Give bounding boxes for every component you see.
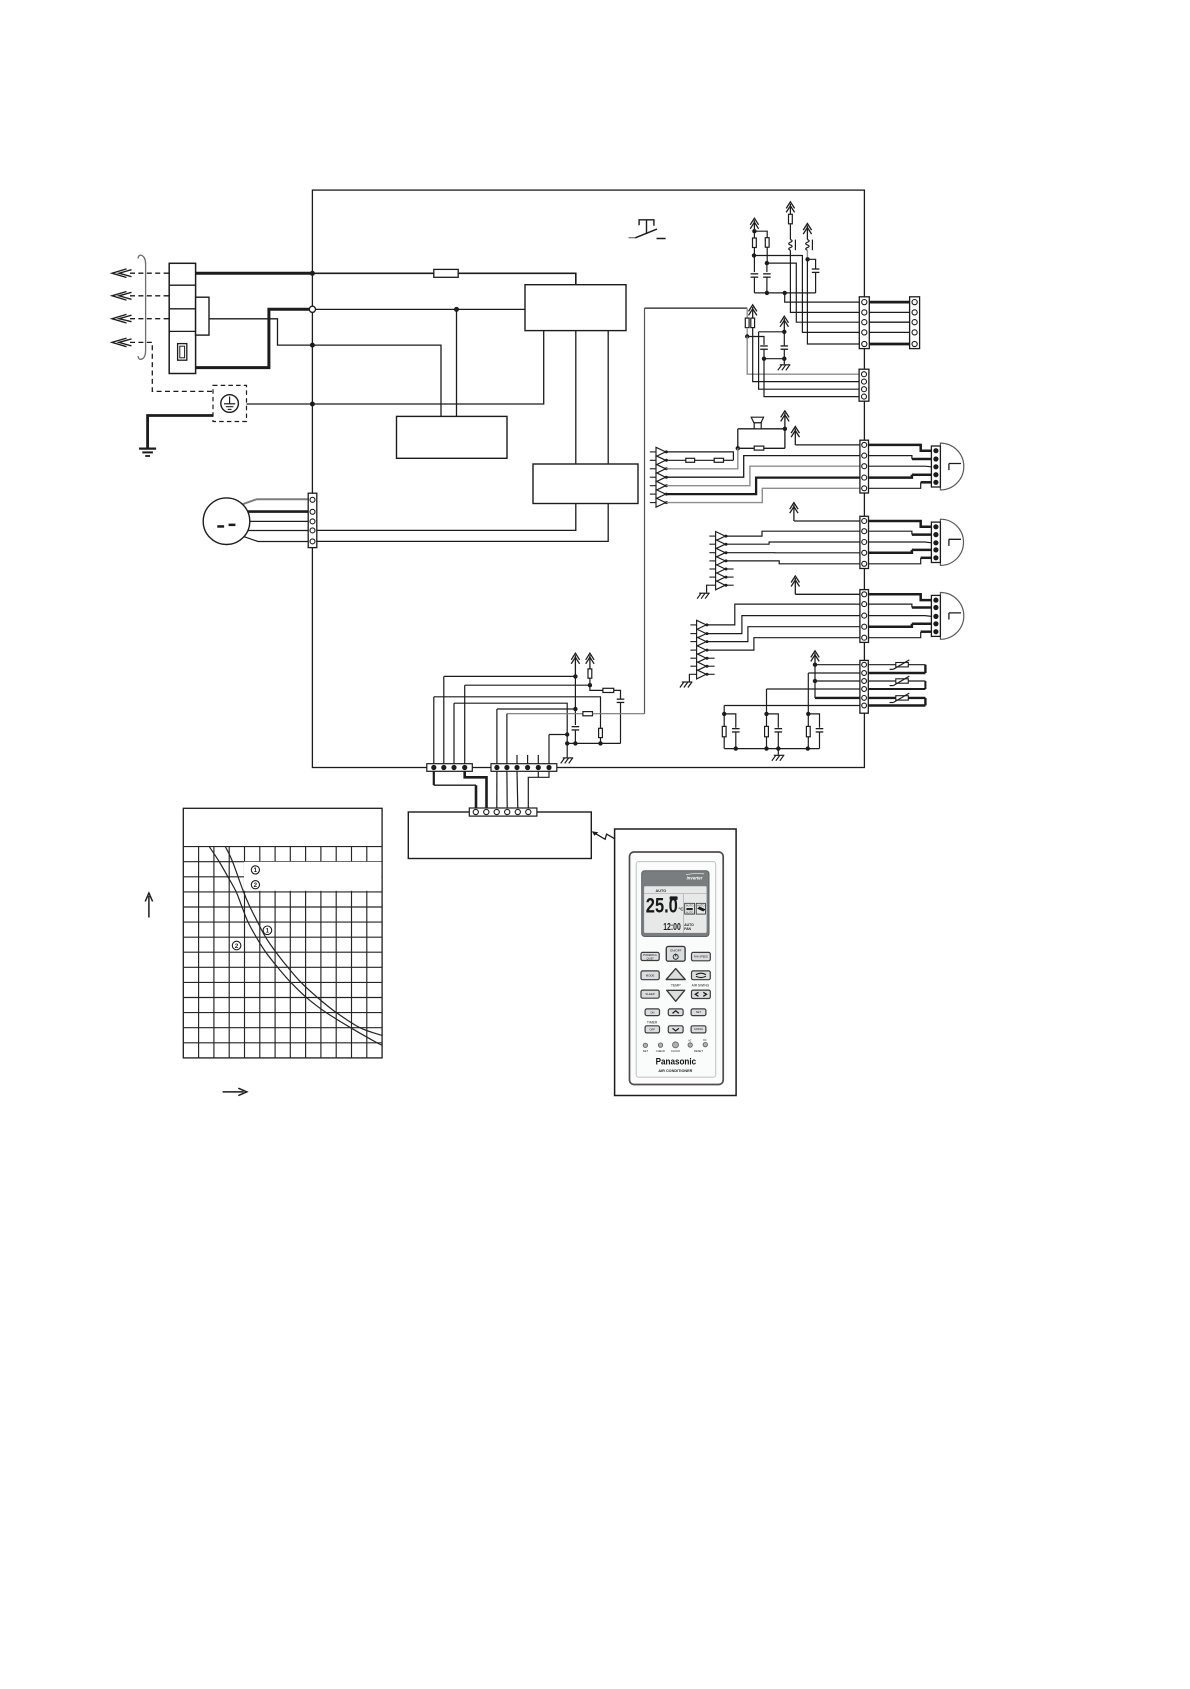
pin header array CN-M2-CN (7 zigzag pins): [709, 532, 727, 541]
wire A row3 to buzzer node: [666, 448, 737, 469]
wire motor lead 3: [250, 520, 308, 522]
stub strip2 pin3: [516, 755, 518, 764]
wire motor lead 4: [248, 530, 308, 532]
wire node to power block: [456, 309, 458, 416]
wire strip1 pin3 to ground line: [454, 703, 567, 734]
svg-text:MODE: MODE: [646, 973, 655, 977]
remote button FAN SPEED: [692, 952, 711, 960]
svg-text:SET: SET: [643, 1049, 649, 1053]
wire CN-M2 pin1 feed: [794, 520, 860, 522]
svg-text:2: 2: [254, 882, 258, 889]
remote button ON/OFF: [666, 946, 685, 961]
wire fuse F2 line (L to control box): [312, 272, 433, 274]
remote button TIMER OFF: [645, 1026, 659, 1033]
wire strip2 pin1 up: [497, 708, 576, 710]
wire CN-M2 w4 (thick): [869, 550, 912, 553]
power arrow P1: [750, 218, 758, 231]
thermistor TH2: [896, 679, 909, 683]
remote button AIR SWING auto: [692, 971, 711, 980]
graph x-axis arrow: [223, 1088, 247, 1095]
svg-text:inverter: inverter: [687, 875, 703, 880]
cable bundle brace: [138, 255, 145, 359]
wire CN-TH pin4 to RC2: [767, 688, 860, 690]
ground symbol cluster2: [783, 359, 785, 365]
node dot C4b: [762, 357, 766, 361]
remote control frame: [615, 829, 737, 1096]
wire supply to CN-TH pin3: [815, 680, 860, 682]
svg-text:12:00: 12:00: [663, 922, 681, 933]
node dot RC3 top: [806, 712, 810, 716]
wire CN-M3 w2: [869, 604, 912, 607]
wire from main line to cluster2: [645, 307, 748, 309]
wire to CN1 pin4: [754, 256, 859, 333]
wire CN-M2 spare stub: [726, 576, 734, 578]
node dot P5: [782, 330, 786, 334]
svg-text:OFF: OFF: [650, 1027, 656, 1031]
remote round button CLOCK: [673, 1042, 679, 1048]
node dot C21 mid: [573, 707, 577, 711]
wire CN-M2 spare stub: [726, 584, 734, 586]
wire R14 to C20: [614, 690, 621, 698]
wire F2 to control box top: [458, 273, 576, 284]
wire strip1 pin4 to R13: [465, 684, 590, 686]
svg-text:AIR CONDITIONER: AIR CONDITIONER: [658, 1069, 692, 1073]
remote button MODE: [641, 971, 659, 980]
ground symbol interface: [561, 758, 574, 764]
power arrow P7 (thermistor supply): [811, 651, 819, 665]
capacitor C10 (RC1): [724, 714, 736, 728]
remote LCD panel: [642, 871, 709, 937]
stub strip2 pin5: [537, 755, 539, 764]
wire CN-M3 w3: [869, 615, 932, 618]
relay block U3: [533, 464, 638, 504]
node dot gnd line a: [565, 732, 569, 736]
graph curve label 1: [263, 926, 272, 935]
capacitor C2: [766, 263, 768, 272]
resistor R16: [583, 712, 593, 716]
main PCB outline (indoor unit electronic controller): [312, 190, 864, 767]
ground symbol CN-M3: [680, 682, 693, 688]
wire CN-M3 w5: [869, 632, 921, 638]
dashed supply lead 2 with arrow: [130, 295, 169, 297]
power arrow CN-M3-P: [791, 576, 799, 594]
motor CN-M1 body: [940, 443, 963, 490]
pin header array CN-M3-CN (7 zigzag pins): [690, 620, 708, 629]
node dot R2b: [765, 261, 769, 265]
wire CN-M2 sensor row3: [726, 552, 860, 554]
wire CN-M3 spare stub: [707, 665, 715, 667]
wire CN-M3 w4 (thick): [869, 624, 912, 627]
node dot R1b: [752, 253, 756, 257]
wire CN1-CN2 pin2: [869, 311, 909, 313]
earth terminal E (protective earth circle): [213, 385, 247, 421]
wire C4b to C5b: [764, 358, 784, 360]
svg-text:SLEEP: SLEEP: [645, 992, 654, 996]
power arrow CN-M1-P: [791, 427, 799, 445]
dashed supply lead 1 with arrow: [130, 272, 169, 274]
svg-text:2: 2: [235, 943, 239, 950]
wire R1 bottom: [753, 248, 755, 256]
resistor R11 (RC2): [766, 714, 768, 727]
node junction dot L2: [310, 343, 315, 348]
ground symbol RC trio: [777, 749, 779, 755]
node dot R4b: [745, 334, 749, 338]
remote button SET: [691, 1009, 706, 1016]
wire CN-M3 sensor row1: [707, 604, 860, 625]
wire CN-M2 spare stub: [726, 568, 734, 570]
wire CN-TH pin2 to RC3: [808, 672, 860, 674]
motor M1 (fan motor): [203, 498, 250, 545]
wire R15 to rail: [600, 738, 602, 744]
wire L2 sense line: [209, 319, 312, 345]
node junction dot E: [310, 402, 315, 407]
capacitor C4: [760, 345, 768, 347]
power arrow P2 with resistor R3: [786, 202, 794, 215]
node dot T2: [813, 679, 817, 683]
node dot P8: [573, 674, 577, 678]
wire CN-TH pin6 to RC1: [724, 705, 860, 707]
wire strip1 pin2 to P8: [444, 675, 576, 677]
node junction dot L1: [310, 271, 315, 276]
svg-text:1: 1: [254, 867, 258, 874]
wire U3 to compressor connector pin4: [317, 504, 576, 531]
power arrow P5: [780, 316, 788, 332]
wire R4 node to cap C4: [747, 337, 764, 345]
graph legend mask: [244, 862, 381, 891]
power block U2: [397, 416, 508, 458]
remote control body: [630, 852, 724, 1085]
node dot rail b: [783, 291, 787, 295]
switch SW1 (auto off/on push switch): [629, 220, 666, 239]
graph curve label 2: [232, 941, 241, 950]
graph frame (performance chart): [183, 808, 382, 1058]
wire E node to control box: [312, 331, 543, 404]
wire supply to CN-TH pin5 (thick): [815, 697, 860, 699]
node open-circle junction N: [309, 306, 315, 312]
remote round button CHECK: [658, 1043, 662, 1047]
graph y-axis arrow: [145, 893, 152, 918]
node dot P1: [752, 229, 756, 233]
svg-text:FAN: FAN: [684, 927, 691, 931]
node dot buzzer left: [736, 446, 740, 450]
varistor Z2 (coil mark): [806, 240, 809, 251]
wire CN-M3 w1 (thick): [869, 594, 932, 600]
wire U1 to U3 line a: [575, 331, 577, 464]
node dot RC1 top: [722, 712, 726, 716]
svg-text:QUIET: QUIET: [646, 957, 654, 960]
wire supply vertical: [814, 665, 816, 698]
wire CN-M2 ground stub: [707, 585, 710, 593]
wire J2 pin2 down: [506, 771, 508, 808]
wire CN-M2 w1 (thick): [869, 521, 932, 527]
connector CN-M2 (5-pin): [860, 516, 869, 568]
resistor R13: [588, 669, 592, 678]
node dot rail left: [565, 741, 569, 745]
wire CN-M1 w4 (thick): [869, 475, 912, 478]
svg-text:AIR SWING: AIR SWING: [692, 984, 710, 988]
resistor R5: [751, 318, 755, 328]
power arrow P3: [803, 224, 811, 240]
wire CN-M3 sensor row3: [707, 627, 860, 642]
node dot T1: [813, 663, 817, 667]
wire A row1: [666, 452, 733, 460]
resistor R6 (buzzer): [754, 446, 764, 450]
wire J2 pins5-6 to display pin6: [528, 771, 549, 808]
remote button hour down: [668, 1026, 683, 1033]
wire interface rail: [567, 742, 620, 744]
connector CN-M1 (5-pin): [860, 440, 869, 493]
capacitor C1: [753, 256, 755, 273]
wire CN-M2 w5: [869, 558, 921, 564]
resistor R15: [599, 728, 603, 737]
wire bottom rail of filter: [754, 292, 815, 294]
dashed supply lead 3 with arrow: [130, 318, 169, 320]
remote LCD fan box 2: [696, 903, 705, 914]
thermistor TH3: [896, 696, 909, 700]
thermistor TH2 loop: [868, 680, 925, 682]
wire A row7 to CN-M1 pin5: [666, 488, 860, 502]
wire strip1 pin1 chain: [434, 697, 601, 729]
svg-text:AUTO: AUTO: [686, 910, 693, 914]
wire ground line down: [566, 735, 568, 758]
wire CN-M3 sensor row4: [707, 638, 860, 650]
wire CN-M1 w5: [869, 482, 921, 488]
connector CN3 (4-pin): [859, 369, 869, 401]
node dot rail a: [765, 291, 769, 295]
svg-text:RESET: RESET: [694, 1049, 703, 1053]
node junction dot on N line: [454, 307, 459, 312]
wire motor lead 5: [244, 537, 308, 542]
remote signal zigzag: [595, 833, 614, 839]
connector CN1 (5-pin, on board edge): [859, 297, 869, 349]
node dot Z2: [805, 257, 809, 261]
capacitor C12 (RC3): [808, 714, 819, 728]
terminal board TB (power supply terminals): [169, 263, 195, 373]
svg-text:AC: AC: [688, 1039, 692, 1042]
wire CN-M3 sensor row2: [707, 616, 860, 634]
fuse F2: [434, 269, 458, 277]
wire R13 to C20 via R14: [590, 678, 603, 690]
resistor R2: [765, 238, 769, 248]
wire CN-M2 w3: [869, 541, 932, 544]
svg-text:RC: RC: [703, 1040, 707, 1042]
wire buzzer loop left: [737, 429, 739, 449]
wire R16 to riser (grey): [593, 713, 645, 715]
remote inverter logo: [686, 874, 704, 875]
remote round button SET: [643, 1043, 647, 1047]
remote button TEMP down: [667, 990, 685, 1001]
wire CN-M1 w1 (thick): [869, 445, 932, 451]
wire CN-M2 w2: [869, 531, 912, 534]
varistor Z1 (coil mark): [789, 224, 791, 240]
capacitor C11 (RC2): [767, 714, 779, 728]
wire A row6 to CN-M1 pin4: [666, 478, 860, 495]
wire CN-M3 spare stub: [707, 657, 715, 659]
wire J1 pin1 to display connector: [433, 771, 435, 785]
remote button TIMER ON: [645, 1009, 659, 1016]
wire P1 branch: [754, 231, 767, 238]
wire R2 bottom: [766, 247, 768, 263]
svg-text:FAN SPEED: FAN SPEED: [694, 956, 708, 959]
graph curve 1: [225, 847, 382, 1036]
wire to CN3 pin2: [753, 328, 859, 382]
svg-text:CHECK: CHECK: [656, 1049, 666, 1053]
wire CN-M1 w3: [869, 465, 932, 468]
wire main riser (to cluster2 feed): [644, 308, 646, 714]
wire J1 pin4 to display connector (thick): [465, 771, 487, 808]
svg-text:AUTO: AUTO: [656, 889, 667, 893]
wire CN1-CN2 pin4: [869, 331, 909, 333]
wire buzzer right down: [784, 429, 786, 449]
remote button CANCEL: [691, 1026, 706, 1033]
wire A row5 to CN-M1 pin3: [666, 466, 860, 486]
wire to CN1 pin2: [790, 250, 859, 312]
remote button SLEEP: [641, 990, 659, 998]
node dot R13b: [588, 683, 592, 687]
wire motor lead 1: [241, 499, 308, 505]
capacitor C20: [617, 698, 625, 700]
svg-text:CANCEL: CANCEL: [694, 1028, 704, 1031]
connector CN-MTR (5-pin): [308, 493, 317, 547]
wire CN1-CN2 pin3: [869, 321, 909, 323]
power arrow P8: [571, 653, 579, 676]
capacitor C5: [783, 332, 785, 346]
connector CN-M3 (5-pin): [860, 590, 869, 643]
wire buzzer loop top: [738, 428, 785, 430]
thermistor TH1 loop: [868, 664, 925, 666]
wire J2 pin1 down: [496, 771, 498, 808]
svg-text:ON: ON: [650, 1010, 654, 1014]
thermistor TH1: [896, 663, 909, 667]
remote button AIR SWING manual: [692, 990, 711, 998]
wire buzzer loop bottom with resistor: [738, 447, 785, 449]
node dot C5b: [782, 357, 786, 361]
wire earth terminal to node E: [247, 403, 313, 405]
node dot buzzer right: [783, 427, 787, 431]
remote button TEMP up: [666, 969, 685, 980]
stub strip2 pin4: [527, 755, 529, 764]
wire CN-M3 ground stub: [689, 674, 690, 681]
dashed earth lead 4 with arrow (to earth block): [130, 342, 213, 391]
wire CN-M2 sensor row2: [726, 542, 860, 544]
wire power line 1 (thick) terminal to node: [196, 272, 313, 275]
connector CN-DISP (6-pin): [469, 808, 537, 816]
remote LCD screen: [644, 886, 707, 933]
svg-text:CLOCK: CLOCK: [671, 1049, 680, 1053]
wire A row4 to CN-M1 pin2: [666, 456, 860, 478]
fuse F1 (in terminal block): [178, 344, 187, 361]
wire CN1-CN2 pin1 (thick): [869, 301, 909, 304]
resistor R4 (on grey line): [746, 308, 748, 318]
wire supply to CN-TH pin1: [815, 664, 860, 666]
power arrow P4: [749, 305, 757, 318]
resistor R14: [603, 688, 614, 692]
remote LCD fan box 1: [685, 903, 695, 914]
power arrow P6 (buzzer): [781, 411, 789, 429]
svg-text:AUTO: AUTO: [697, 904, 704, 908]
capacitor C3: [815, 273, 817, 293]
wire Z2 to node: [806, 250, 808, 259]
wire motor lead 2 (thick): [248, 510, 309, 513]
wire to CN3 pin3: [759, 331, 785, 333]
remote LCD mode badge: [670, 896, 678, 900]
display unit box (receiver/indicator PCB): [408, 812, 591, 859]
wire to CN3 pin4: [764, 359, 859, 397]
remote button POWERFUL/QUIET: [641, 952, 659, 960]
resistor R10 (RC1): [723, 714, 725, 727]
remote button hour up: [668, 1009, 683, 1016]
wire to CN3 pin1 (grey): [747, 337, 859, 375]
resistor R1: [753, 231, 755, 238]
node dot RC2 top: [764, 712, 768, 716]
wire U3 to compressor connector pin5: [317, 504, 608, 542]
connector strip J1 (4-pin): [427, 764, 473, 772]
connector strip J2 (6-pin): [491, 764, 557, 772]
graph grid: [183, 847, 382, 1058]
wire to CN1 pin1: [785, 293, 860, 302]
svg-text:ON/OFF: ON/OFF: [670, 949, 682, 953]
motor CN-M2 body: [940, 519, 963, 565]
remote LCD divider: [683, 894, 685, 933]
connector CN2 mate (5-pin): [910, 297, 920, 349]
motor CN-M3 body: [940, 593, 963, 640]
wire strip2 pin2 to main line (grey): [507, 713, 583, 715]
wire CN-M2 sensor row1: [726, 531, 860, 536]
svg-text:1: 1: [266, 928, 270, 935]
wire CN-M3 pin1 feed: [795, 593, 860, 595]
capacitor C21: [574, 676, 576, 725]
ground symbol (chassis earth): [139, 447, 156, 449]
wire power line 2 (thick) via fuse path: [187, 309, 311, 367]
wire CN1-CN2 pin5 (thick): [869, 343, 909, 346]
resistor R12 (RC3): [807, 714, 809, 727]
graph legend label 1: [251, 866, 259, 874]
wire RC bottom rail: [724, 748, 819, 750]
wire CN-M1 w2: [869, 456, 912, 459]
ground symbol CN-M2: [697, 593, 710, 599]
power arrow CN-M2-P: [790, 503, 798, 521]
node dot R15b: [598, 741, 602, 745]
wire CN-M3 spare stub: [707, 673, 715, 675]
svg-text:AUTO: AUTO: [686, 904, 693, 908]
pin header array CN-A (7 zigzag pins): [650, 447, 668, 456]
graph curve 2: [209, 847, 382, 1046]
wire CN-M1 pin1 feed: [795, 444, 860, 446]
svg-text:TIMER: TIMER: [647, 1020, 658, 1024]
wire N line to control box: [316, 308, 526, 310]
wire to CN1 pin5: [807, 259, 859, 344]
resistor R3: [789, 214, 793, 224]
svg-text:Panasonic: Panasonic: [656, 1056, 697, 1066]
node dots RC rail: [734, 746, 738, 750]
svg-text:SET: SET: [696, 1010, 702, 1014]
svg-text:TEMP: TEMP: [671, 984, 681, 988]
node dot P8 rail: [573, 741, 577, 745]
wire J2 pin3 down: [516, 771, 519, 808]
wire earth to ground (thick): [148, 416, 213, 449]
wire U1 to U3 line b: [607, 331, 609, 464]
thermistor TH3 loop: [868, 697, 925, 699]
connector CN-TH (6-pin): [860, 660, 868, 713]
wire L2 to power block: [312, 345, 441, 416]
power arrow P9 with resistor: [586, 653, 594, 669]
wire strip2 pin6 up: [549, 734, 567, 736]
wire A row2 with resistors R7 R8: [666, 459, 685, 461]
buzzer BZ: [751, 417, 763, 423]
wire to CN1 pin3: [767, 263, 859, 322]
wire CN-M2 sensor row4: [726, 561, 860, 564]
graph legend label 2: [251, 881, 259, 889]
